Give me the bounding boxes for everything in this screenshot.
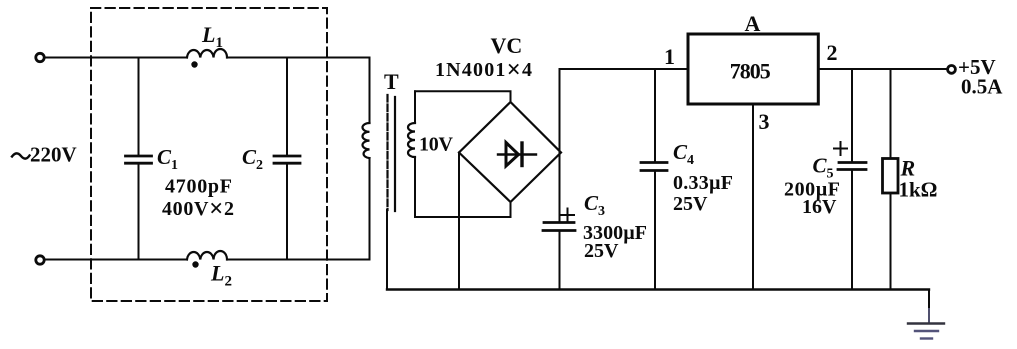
svg-text:10V: 10V bbox=[419, 134, 454, 156]
wire bottom rail right bbox=[227, 259, 369, 261]
transformer T secondary winding bbox=[408, 91, 415, 217]
resistor R bbox=[883, 69, 899, 290]
transformer T primary winding bbox=[362, 58, 369, 260]
svg-text:VC: VC bbox=[491, 33, 523, 58]
capacitor C3 electrolytic bbox=[543, 223, 575, 290]
L2 polarity dot bbox=[192, 261, 198, 267]
svg-text:16V: 16V bbox=[802, 196, 837, 218]
C5 plus sign bbox=[834, 142, 847, 155]
svg-text:0.33µF: 0.33µF bbox=[673, 172, 733, 194]
ground symbol bbox=[908, 324, 944, 339]
svg-text:220V: 220V bbox=[30, 143, 77, 167]
svg-text:25V: 25V bbox=[584, 240, 619, 262]
svg-text:3: 3 bbox=[759, 109, 770, 134]
wire node to pin 1 bbox=[560, 68, 689, 70]
transformer shield dashed line bbox=[386, 95, 388, 210]
label ~220V bbox=[12, 143, 77, 167]
capacitor C4 bbox=[641, 69, 667, 290]
bridge rectifier VC diamond bbox=[459, 102, 561, 202]
svg-text:A: A bbox=[745, 11, 761, 36]
EMI filter dashed enclosure bbox=[91, 8, 327, 301]
input terminal bottom bbox=[36, 256, 44, 264]
wire secondary top to bridge bbox=[415, 91, 511, 102]
L1 polarity dot bbox=[191, 61, 197, 67]
C3 plus sign bbox=[561, 209, 574, 222]
svg-text:0.5A: 0.5A bbox=[961, 75, 1003, 99]
ground rail bbox=[387, 288, 929, 290]
svg-text:25V: 25V bbox=[673, 193, 708, 215]
svg-text:T: T bbox=[384, 69, 399, 94]
wire bridge positive node vertical bbox=[559, 69, 561, 222]
svg-text:7805: 7805 bbox=[730, 59, 771, 84]
bridge diode symbol bbox=[498, 143, 536, 167]
svg-text:1kΩ: 1kΩ bbox=[899, 178, 938, 202]
ground lead bbox=[928, 290, 930, 310]
wire pin 2 output bbox=[819, 68, 948, 70]
wire top rail left bbox=[44, 57, 187, 59]
inductor L2 bbox=[187, 251, 227, 260]
wire secondary bottom to bridge bbox=[415, 202, 511, 217]
inductor L1 bbox=[187, 49, 227, 57]
svg-text:1N4001×4: 1N4001×4 bbox=[435, 57, 532, 84]
regulator IC A (7805) bbox=[688, 34, 818, 104]
wire bridge negative corner to ground rail bbox=[458, 153, 460, 290]
input terminal top bbox=[36, 53, 44, 61]
svg-text:4700pF: 4700pF bbox=[165, 176, 232, 198]
svg-text:400V×2: 400V×2 bbox=[162, 196, 234, 223]
capacitor C1 bbox=[126, 58, 152, 260]
wire pin 3 to ground rail bbox=[752, 105, 754, 290]
wire top rail right bbox=[227, 57, 369, 59]
capacitor C5 electrolytic bbox=[838, 69, 866, 290]
svg-text:1: 1 bbox=[664, 44, 675, 69]
svg-text:2: 2 bbox=[827, 40, 838, 65]
output terminal bbox=[948, 66, 956, 74]
transformer shield ground wire bbox=[386, 210, 388, 290]
capacitor C2 bbox=[274, 58, 300, 260]
transformer core line bbox=[394, 97, 396, 211]
wire bottom rail left bbox=[44, 259, 187, 261]
